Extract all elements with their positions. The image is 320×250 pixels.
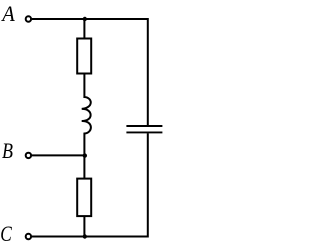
svg-text:C: C (0, 221, 12, 246)
svg-text:B: B (2, 138, 13, 163)
svg-text:A: A (0, 1, 15, 26)
